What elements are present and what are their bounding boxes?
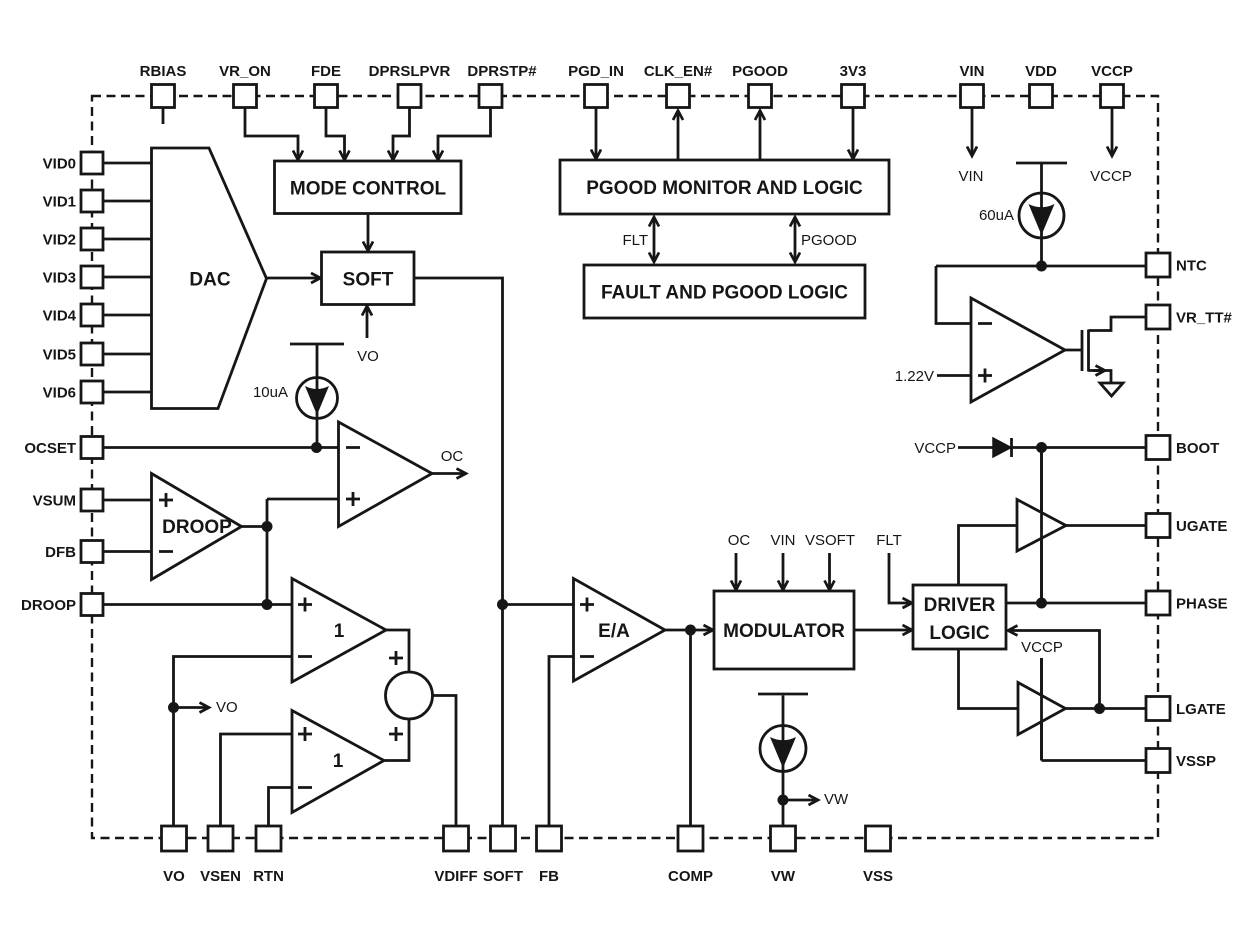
node SOFT/EA junction <box>497 599 508 610</box>
transistor Q1 (VR_TT# MOSFET) <box>1082 330 1089 372</box>
wire VSOFT into modulator <box>828 553 831 590</box>
svg-text:OC: OC <box>441 448 464 465</box>
pin 3V3 <box>840 63 867 108</box>
pin UGATE <box>1146 514 1227 538</box>
svg-text:COMP: COMP <box>668 868 713 885</box>
svg-text:DROOP: DROOP <box>21 597 76 614</box>
pin FDE <box>311 63 341 108</box>
pin BOOT <box>1146 436 1219 460</box>
wire DROOP output net <box>242 499 268 605</box>
svg-text:PHASE: PHASE <box>1176 596 1228 613</box>
wire OC into modulator <box>735 553 738 590</box>
node BOOT junction <box>1036 442 1047 453</box>
svg-text:VSOFT: VSOFT <box>805 532 855 549</box>
svg-text:DRIVER: DRIVER <box>924 595 996 616</box>
wire PGOOD MONITOR to PGOOD pin <box>759 111 762 161</box>
wire DPRSLPVR to MODE CONTROL <box>393 107 410 160</box>
op-amp E/A <box>574 579 666 682</box>
svg-text:FLT: FLT <box>876 532 902 549</box>
pin VID4 <box>43 304 103 326</box>
svg-text:MODE CONTROL: MODE CONTROL <box>290 179 447 200</box>
wire FLT double arrow between logic blocks <box>653 217 656 262</box>
wire VCCP pin internal arrow <box>1111 107 1114 156</box>
wire E/A minus to FB pin <box>549 657 574 827</box>
svg-text:VR_TT#: VR_TT# <box>1176 310 1233 327</box>
svg-text:RTN: RTN <box>253 868 284 885</box>
svg-text:10uA: 10uA <box>253 384 288 401</box>
svg-text:PGOOD MONITOR AND LOGIC: PGOOD MONITOR AND LOGIC <box>586 178 863 199</box>
wire VIN into modulator <box>782 553 785 590</box>
wire VSEN to buffer2 plus <box>221 734 293 826</box>
wire comparator output to MOSFET gate <box>1065 349 1082 352</box>
wire PGOOD MONITOR to CLK_EN# pin <box>677 111 680 161</box>
svg-text:E/A: E/A <box>598 621 630 642</box>
current source 10uA <box>290 344 344 419</box>
wire buffer1 output to summer <box>386 630 409 672</box>
DAC block <box>152 148 267 409</box>
svg-text:3V3: 3V3 <box>840 63 867 80</box>
svg-text:DPRSTP#: DPRSTP# <box>467 63 537 80</box>
svg-text:1: 1 <box>334 621 345 642</box>
wire 3V3 to PGOOD MONITOR <box>852 107 855 159</box>
svg-text:DROOP: DROOP <box>162 517 232 538</box>
wire VID4 to DAC <box>103 314 153 317</box>
svg-text:FAULT AND PGOOD LOGIC: FAULT AND PGOOD LOGIC <box>601 283 848 304</box>
svg-text:VSSP: VSSP <box>1176 753 1216 770</box>
wire driver logic to UGATE driver input <box>959 526 1018 586</box>
SOFT block <box>322 252 415 305</box>
svg-text:VW: VW <box>824 791 849 808</box>
svg-text:SOFT: SOFT <box>483 868 523 885</box>
summer circle <box>386 651 433 741</box>
pin VSEN <box>200 826 241 885</box>
MODULATOR block <box>714 591 854 669</box>
svg-text:VDD: VDD <box>1025 63 1057 80</box>
pin VSS <box>863 826 893 885</box>
svg-text:VIN: VIN <box>959 63 984 80</box>
wire VID0 to DAC <box>103 162 153 165</box>
svg-text:VSUM: VSUM <box>33 493 76 510</box>
buffer UGATE driver <box>1017 500 1066 552</box>
pin VID6 <box>43 381 103 403</box>
buffer LGATE driver <box>1018 683 1066 735</box>
wire DAC to SOFT <box>267 277 321 280</box>
wire 60uA source rail and output <box>1040 164 1043 266</box>
wire DFB to DROOP minus <box>103 550 152 553</box>
svg-text:BOOT: BOOT <box>1176 440 1219 457</box>
pin VR_ON <box>219 63 271 108</box>
pin RBIAS <box>140 63 187 108</box>
svg-text:VID2: VID2 <box>43 232 76 249</box>
wire NTC horizontal <box>936 265 1146 268</box>
svg-text:FB: FB <box>539 868 559 885</box>
wire COMP vertical <box>689 630 692 826</box>
current source VW <box>758 694 808 772</box>
svg-text:LOGIC: LOGIC <box>929 623 989 644</box>
pin DPRSLPVR <box>369 63 451 108</box>
node VO junction <box>168 702 179 713</box>
pin VO <box>162 826 187 885</box>
wire buffer2 output to summer <box>384 719 409 761</box>
pin PHASE <box>1146 591 1228 615</box>
svg-text:VCCP: VCCP <box>914 440 956 457</box>
wire VCCP return into driver logic <box>1008 631 1100 709</box>
wire FLT into driver logic <box>889 553 912 603</box>
pin DPRSTP# <box>467 63 537 108</box>
svg-text:VO: VO <box>216 699 238 716</box>
svg-text:UGATE: UGATE <box>1176 518 1227 535</box>
svg-text:SOFT: SOFT <box>343 270 394 291</box>
pin VID0 <box>43 152 103 174</box>
svg-text:VCCP: VCCP <box>1090 168 1132 185</box>
FAULT AND PGOOD LOGIC block <box>584 265 865 318</box>
node PHASE junction <box>1036 598 1047 609</box>
pin DFB <box>45 541 103 563</box>
pin COMP <box>668 826 713 885</box>
wire VW arrow <box>783 799 818 802</box>
pin FB <box>537 826 562 885</box>
pin SOFT <box>483 826 523 885</box>
wire MOSFET source to ground <box>1089 371 1112 384</box>
node LGATE junction <box>1094 703 1105 714</box>
pin VID5 <box>43 343 103 365</box>
svg-text:DAC: DAC <box>189 270 230 291</box>
pin VSUM <box>33 489 103 511</box>
svg-text:VID1: VID1 <box>43 194 76 211</box>
svg-text:RBIAS: RBIAS <box>140 63 187 80</box>
comparator OC <box>339 422 433 527</box>
wire modulator output to driver logic <box>854 629 912 632</box>
svg-text:VID3: VID3 <box>43 270 76 287</box>
node 60uA/NTC junction <box>1036 261 1047 272</box>
wire VID5 to DAC <box>103 353 153 356</box>
wire LGATE driver output to LGATE pin <box>1066 707 1147 710</box>
DRIVER LOGIC block <box>913 585 1006 649</box>
wire PGOOD double arrow between logic blocks <box>794 217 797 262</box>
pin VID1 <box>43 190 103 212</box>
node DROOP pin junction <box>262 599 273 610</box>
wire VID1 to DAC <box>103 200 153 203</box>
wire DROOP pin to buffer1 plus <box>103 603 292 606</box>
pin VCCP <box>1091 63 1133 108</box>
wire SOFT net to E/A plus input <box>503 603 574 606</box>
wire 1.22V to comparator plus <box>937 374 971 377</box>
PGOOD MONITOR AND LOGIC block <box>560 160 889 214</box>
svg-text:CLK_EN#: CLK_EN# <box>644 63 713 80</box>
wire VID2 to DAC <box>103 238 153 241</box>
pin NTC <box>1146 253 1207 277</box>
svg-text:VID5: VID5 <box>43 347 76 364</box>
svg-text:VW: VW <box>771 868 796 885</box>
wire VSUM to DROOP plus <box>103 499 152 502</box>
wire DPRSTP# to MODE CONTROL <box>438 107 491 160</box>
svg-text:DPRSLPVR: DPRSLPVR <box>369 63 451 80</box>
MODE CONTROL block <box>275 161 462 214</box>
svg-text:VID4: VID4 <box>43 308 77 325</box>
wire summer output to VDIFF pin <box>433 696 457 827</box>
wire RTN to buffer2 minus <box>269 788 293 827</box>
wire VSSP <box>1042 759 1147 762</box>
svg-text:VIN: VIN <box>770 532 795 549</box>
node VW junction <box>778 795 789 806</box>
svg-text:VID0: VID0 <box>43 156 76 173</box>
svg-text:DFB: DFB <box>45 544 76 561</box>
wire UGATE driver output to UGATE pin <box>1066 524 1146 527</box>
buffer 1 (upper) <box>292 579 386 683</box>
svg-text:PGD_IN: PGD_IN <box>568 63 624 80</box>
pin PGD_IN <box>568 63 624 108</box>
wire VIN pin internal arrow <box>971 107 974 156</box>
svg-text:VID6: VID6 <box>43 385 76 402</box>
node OCSET/10uA junction <box>311 442 322 453</box>
svg-text:VO: VO <box>357 348 379 365</box>
diode D1 <box>993 438 1011 457</box>
svg-text:1: 1 <box>333 751 344 772</box>
svg-text:FLT: FLT <box>622 232 648 249</box>
svg-text:FDE: FDE <box>311 63 341 80</box>
wire VO arrow <box>174 706 210 709</box>
wire OCSET to OC comparator minus <box>103 446 339 449</box>
wire VCCP to diode to BOOT <box>958 446 995 449</box>
svg-text:VCCP: VCCP <box>1091 63 1133 80</box>
svg-text:OCSET: OCSET <box>24 440 76 457</box>
svg-text:VDIFF: VDIFF <box>434 868 477 885</box>
wire PGD_IN to PGOOD MONITOR <box>595 107 598 159</box>
svg-text:MODULATOR: MODULATOR <box>723 621 845 642</box>
svg-text:VCCP: VCCP <box>1021 639 1063 656</box>
svg-text:VSEN: VSEN <box>200 868 241 885</box>
node E/A output junction <box>685 625 696 636</box>
wire RBIAS stub <box>162 107 165 124</box>
svg-text:NTC: NTC <box>1176 258 1207 275</box>
svg-text:VIN: VIN <box>958 168 983 185</box>
wire VCCP rail down through LGATE driver to VSSP <box>1040 658 1043 761</box>
node DROOP output junction <box>262 521 273 532</box>
wire DROOP output to OC comparator plus <box>267 498 339 501</box>
pin OCSET <box>24 437 103 459</box>
pin VW <box>771 826 796 885</box>
wire OC comparator output arrow <box>432 472 466 475</box>
wire VID6 to DAC <box>103 391 153 394</box>
wire VW current source chain <box>782 696 785 827</box>
op-amp DROOP <box>152 474 242 580</box>
wire VR_ON to MODE CONTROL <box>245 107 298 160</box>
wire VO net to buffer1 minus <box>174 657 293 827</box>
comparator thermal (1.22V) <box>971 298 1065 402</box>
pin LGATE <box>1146 697 1226 721</box>
wire BOOT rail through UGATE driver (overdraw) <box>1040 448 1043 604</box>
current source 60uA <box>1016 163 1067 238</box>
svg-text:60uA: 60uA <box>979 207 1014 224</box>
pin CLK_EN# <box>644 63 713 108</box>
wire SOFT block to SOFT pin (long vertical) <box>414 278 503 826</box>
wire FDE to MODE CONTROL <box>326 107 345 160</box>
wire VO into SOFT bottom <box>366 306 369 338</box>
wire VCCP rail through LGATE driver (overdraw) <box>1040 658 1043 761</box>
svg-text:VO: VO <box>163 868 185 885</box>
ground symbol <box>1100 383 1123 396</box>
wire 10uA source output <box>316 345 319 448</box>
svg-text:LGATE: LGATE <box>1176 701 1226 718</box>
pin DROOP <box>21 594 103 616</box>
wire E/A output to modulator <box>665 629 713 632</box>
wire MOSFET drain to VR_TT# <box>1089 317 1147 331</box>
svg-text:VSS: VSS <box>863 868 893 885</box>
pin VDIFF <box>434 826 477 885</box>
svg-text:PGOOD: PGOOD <box>801 232 857 249</box>
pin VID3 <box>43 266 103 288</box>
buffer 2 (lower) <box>292 711 384 813</box>
pin VIN <box>959 63 984 108</box>
pin RTN <box>253 826 284 885</box>
pin VSSP <box>1146 749 1216 773</box>
wire PHASE <box>1006 602 1146 605</box>
pin VR_TT# <box>1146 305 1233 329</box>
wire driver logic to LGATE driver input <box>959 649 1019 709</box>
pin VDD <box>1025 63 1057 108</box>
wire NTC to comparator minus <box>936 266 971 324</box>
pin PGOOD <box>732 63 788 108</box>
svg-text:PGOOD: PGOOD <box>732 63 788 80</box>
IC boundary dashed border <box>92 96 1158 838</box>
pin VID2 <box>43 228 103 250</box>
svg-text:1.22V: 1.22V <box>895 368 934 385</box>
wire MODE CONTROL to SOFT <box>367 214 370 252</box>
svg-text:VR_ON: VR_ON <box>219 63 271 80</box>
wire BOOT rail down through UGATE driver to PHASE <box>1040 448 1043 604</box>
svg-text:OC: OC <box>728 532 751 549</box>
wire VID3 to DAC <box>103 276 153 279</box>
